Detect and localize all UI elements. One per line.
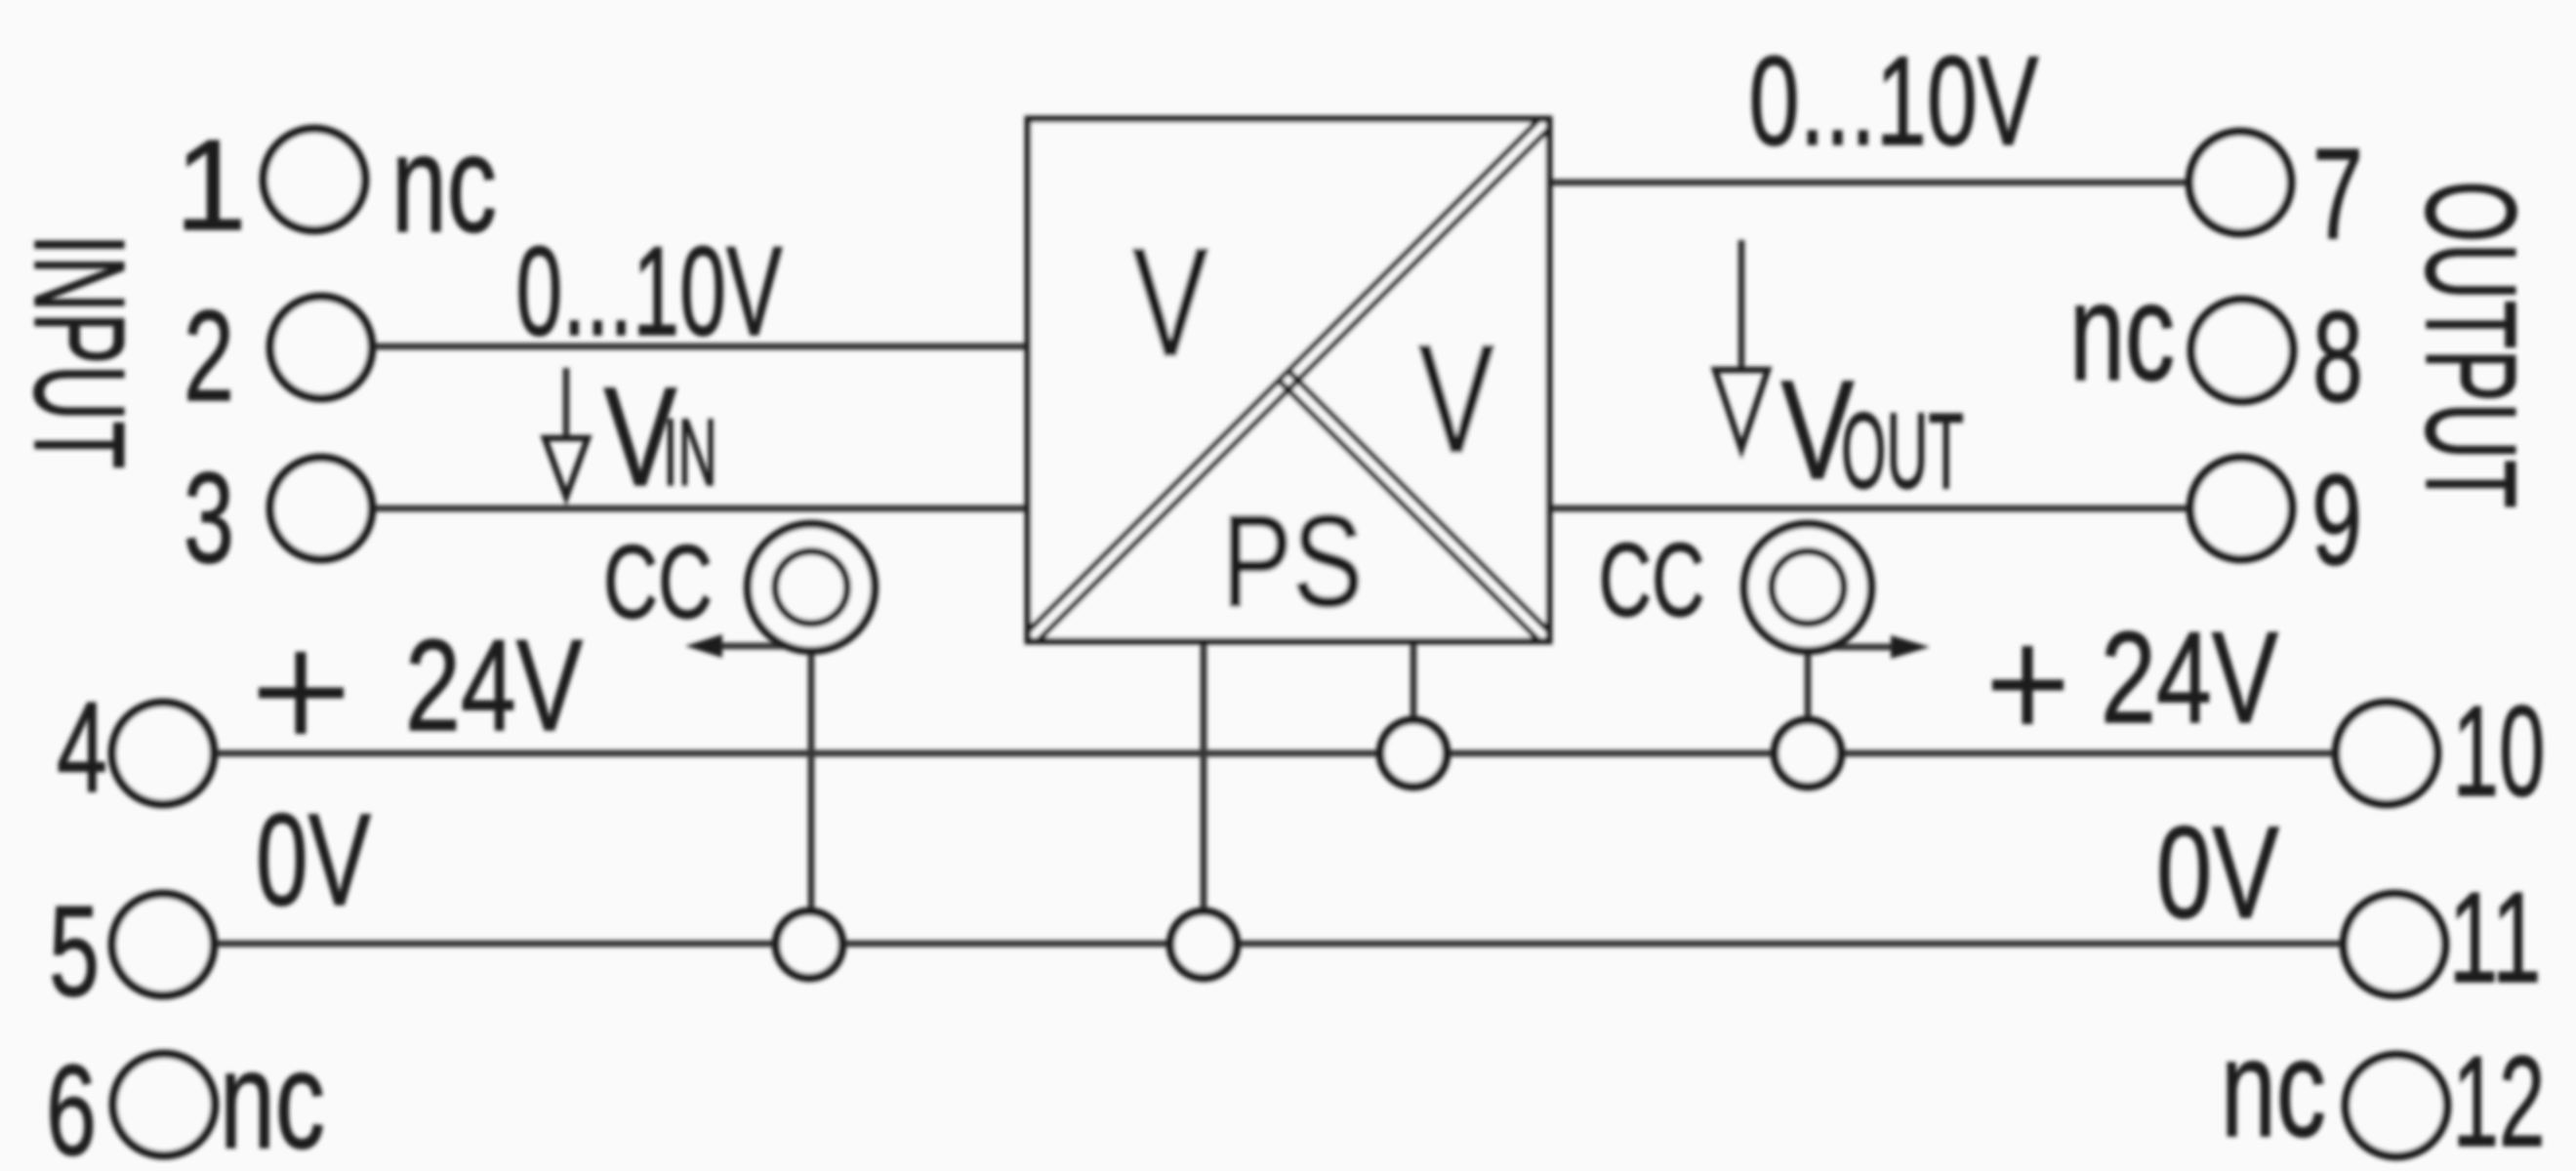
svg-text:V: V: [1418, 313, 1494, 485]
svg-text:V: V: [1132, 217, 1208, 388]
svg-text:10: 10: [2453, 679, 2546, 823]
svg-text:7: 7: [2312, 122, 2363, 265]
svg-text:8: 8: [2312, 285, 2363, 428]
svg-text:4: 4: [57, 675, 107, 819]
svg-text:12: 12: [2453, 1030, 2546, 1171]
svg-text:0...10V: 0...10V: [516, 220, 783, 362]
svg-text:CC: CC: [1599, 521, 1705, 638]
svg-text:CC: CC: [603, 523, 713, 640]
svg-text:nc: nc: [391, 106, 497, 262]
svg-text:5: 5: [49, 879, 100, 1023]
svg-text:0V: 0V: [2156, 800, 2279, 946]
svg-text:INPUT: INPUT: [8, 234, 151, 469]
svg-text:nc: nc: [220, 1023, 325, 1171]
svg-text:3: 3: [184, 446, 234, 589]
svg-text:0...10V: 0...10V: [1749, 29, 2039, 172]
svg-text:PS: PS: [1222, 489, 1364, 634]
svg-text:11: 11: [2449, 866, 2542, 1009]
svg-text:IN: IN: [663, 399, 717, 505]
svg-text:24V: 24V: [405, 614, 583, 758]
svg-text:0V: 0V: [256, 787, 371, 933]
svg-text:OUT: OUT: [1841, 391, 1964, 511]
svg-text:24V: 24V: [2101, 606, 2278, 750]
svg-text:nc: nc: [2069, 255, 2175, 410]
svg-text:OUTPUT: OUTPUT: [2399, 181, 2543, 508]
svg-text:nc: nc: [2221, 1011, 2326, 1166]
svg-text:2: 2: [184, 284, 234, 427]
svg-text:6: 6: [46, 1038, 97, 1171]
svg-text:9: 9: [2311, 448, 2362, 591]
svg-text:1: 1: [175, 113, 246, 257]
